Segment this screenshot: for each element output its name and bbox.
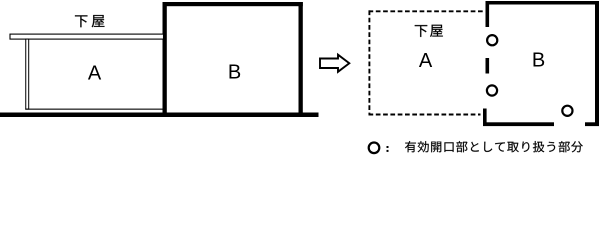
svg-text:A: A: [88, 62, 102, 84]
svg-text:B: B: [228, 61, 241, 83]
svg-text:B: B: [532, 49, 545, 71]
svg-text:A: A: [419, 50, 433, 72]
